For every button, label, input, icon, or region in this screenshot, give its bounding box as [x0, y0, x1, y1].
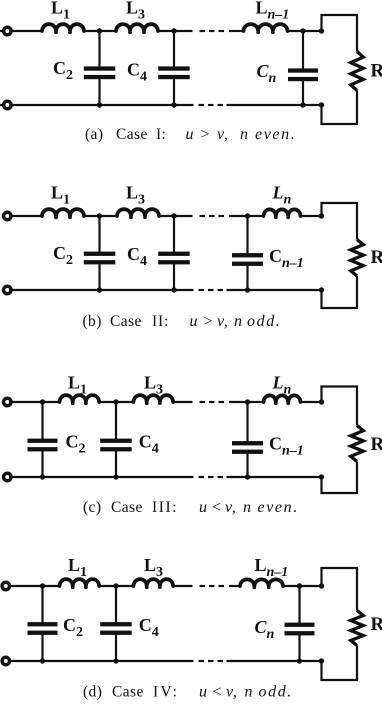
- svg-text:v,: v,: [225, 499, 237, 516]
- svg-text:>: >: [203, 313, 215, 330]
- svg-text:<: <: [211, 499, 223, 516]
- svg-text:u: u: [190, 313, 199, 330]
- svg-text:u: u: [199, 499, 208, 516]
- svg-text:Case: Case: [112, 684, 144, 701]
- svg-text:R: R: [371, 614, 382, 635]
- svg-text:Case: Case: [111, 499, 143, 516]
- svg-text:<: <: [212, 684, 224, 701]
- svg-text:n: n: [243, 499, 252, 516]
- svg-text:(d): (d): [83, 684, 102, 701]
- svg-text:(c): (c): [83, 499, 101, 516]
- svg-text:v,: v,: [217, 313, 229, 330]
- svg-text:R: R: [371, 61, 382, 82]
- svg-text:I:: I:: [156, 126, 166, 143]
- svg-text:n: n: [245, 684, 254, 701]
- svg-text:u: u: [199, 684, 208, 701]
- svg-text:odd.: odd.: [247, 313, 281, 330]
- svg-text:Case: Case: [116, 126, 148, 143]
- svg-text:>: >: [200, 126, 212, 143]
- svg-text:even.: even.: [258, 499, 299, 516]
- svg-text:n: n: [234, 313, 243, 330]
- svg-text:(a): (a): [85, 126, 103, 143]
- svg-text:even.: even.: [255, 126, 296, 143]
- svg-text:odd.: odd.: [259, 684, 293, 701]
- svg-text:n: n: [240, 126, 249, 143]
- svg-text:R: R: [371, 247, 382, 268]
- svg-text:IV:: IV:: [153, 684, 179, 701]
- svg-text:R: R: [371, 434, 382, 455]
- svg-text:v,: v,: [217, 126, 229, 143]
- svg-text:(b): (b): [83, 313, 102, 330]
- svg-text:v,: v,: [226, 684, 238, 701]
- svg-text:u: u: [186, 126, 195, 143]
- svg-text:Case: Case: [110, 313, 142, 330]
- svg-text:III:: III:: [152, 499, 178, 516]
- svg-text:II:: II:: [152, 313, 169, 330]
